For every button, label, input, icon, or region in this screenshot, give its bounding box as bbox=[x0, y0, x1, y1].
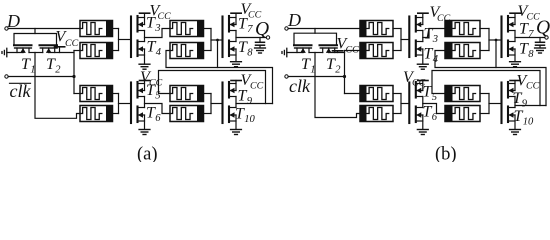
svg-text:CC: CC bbox=[158, 11, 172, 22]
svg-text:CC: CC bbox=[149, 78, 163, 89]
svg-text:Q: Q bbox=[255, 19, 269, 40]
svg-text:CC: CC bbox=[346, 45, 360, 56]
svg-text:CC: CC bbox=[437, 13, 451, 24]
svg-text:4: 4 bbox=[433, 54, 439, 65]
svg-text:clk: clk bbox=[10, 81, 32, 101]
svg-text:10: 10 bbox=[523, 117, 534, 128]
svg-text:CC: CC bbox=[250, 81, 264, 92]
svg-text:9: 9 bbox=[522, 99, 528, 110]
svg-text:CC: CC bbox=[526, 81, 540, 92]
svg-text:CC: CC bbox=[248, 10, 262, 21]
svg-text:CC: CC bbox=[527, 12, 541, 23]
svg-text:7: 7 bbox=[247, 24, 253, 35]
svg-text:7: 7 bbox=[528, 29, 534, 40]
svg-text:6: 6 bbox=[155, 113, 161, 124]
svg-text:1: 1 bbox=[30, 65, 35, 76]
svg-text:6: 6 bbox=[432, 112, 438, 123]
svg-text:2: 2 bbox=[55, 65, 61, 76]
svg-text:2: 2 bbox=[335, 65, 341, 76]
svg-text:1: 1 bbox=[310, 65, 315, 76]
svg-text:5: 5 bbox=[155, 91, 160, 102]
svg-text:3: 3 bbox=[432, 34, 438, 45]
svg-text:(a): (a) bbox=[137, 145, 158, 163]
svg-text:9: 9 bbox=[247, 96, 253, 107]
svg-text:clk: clk bbox=[289, 76, 311, 96]
svg-text:10: 10 bbox=[244, 114, 255, 125]
svg-text:(b): (b) bbox=[435, 145, 457, 163]
svg-text:4: 4 bbox=[156, 47, 162, 58]
svg-text:D: D bbox=[287, 10, 301, 30]
svg-text:8: 8 bbox=[528, 49, 534, 60]
svg-text:5: 5 bbox=[432, 92, 437, 103]
svg-text:3: 3 bbox=[154, 23, 160, 34]
svg-text:CC: CC bbox=[65, 38, 79, 49]
svg-text:8: 8 bbox=[247, 48, 253, 59]
svg-text:CC: CC bbox=[412, 78, 426, 89]
